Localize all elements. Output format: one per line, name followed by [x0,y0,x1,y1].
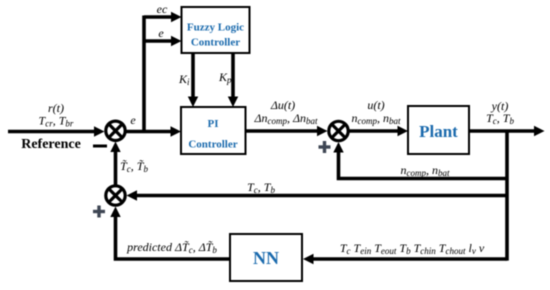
svg-text:Plant: Plant [419,122,458,141]
arrowhead Kp [228,97,238,108]
svg-text:Fuzzy Logic: Fuzzy Logic [187,22,244,34]
wire NN input from tap [312,257,508,261]
NN box [230,234,302,281]
wire S3 to S1 [114,150,118,185]
svg-text:PI: PI [208,118,219,130]
plant box [408,106,469,154]
wire Kp [231,53,235,99]
summing junction S3 [106,186,125,205]
arrowhead into summing junction S1 [94,126,105,136]
svg-text:NN: NN [253,248,279,268]
wire S1 to PI controller [126,130,173,134]
svg-text:u(t): u(t) [367,98,384,112]
arrowhead into S3 right [127,190,138,200]
wire vertical tap on output [505,130,509,261]
svg-text:predicted ΔT̃c, ΔT̃b: predicted ΔT̃c, ΔT̃b [126,240,217,255]
wire NN output to S3 [116,214,231,259]
svg-text:Δu(t): Δu(t) [270,98,295,112]
arrowhead into S3 bottom [110,207,120,218]
arrowhead into S2 [317,126,328,136]
svg-text:e: e [130,113,136,127]
fuzzy logic controller box [182,7,250,53]
PI controller box [181,107,246,154]
arrowhead into S1 bottom [110,142,120,153]
minus sign at S1 [93,145,107,148]
svg-text:ec: ec [157,2,168,16]
svg-text:Controller: Controller [188,139,237,151]
wire branch e up [142,16,146,134]
arrowhead Ki [188,97,198,108]
summing junction S2 [329,121,348,140]
summing junction S1 [106,121,125,140]
wire S2 to plant [349,129,400,133]
plus sign at S3 [93,206,105,218]
svg-text:Controller: Controller [191,37,240,49]
wire plant output [469,129,536,133]
svg-text:Reference: Reference [21,137,81,152]
wire feedback Tc,Tb to S3 [135,194,508,198]
svg-text:e: e [158,26,164,40]
arrowhead into PI controller [171,126,182,136]
wire ec into fuzzy controller [144,15,173,19]
arrowhead ec [171,12,182,22]
arrowhead output [534,126,545,136]
wire PI to S2 [246,129,320,133]
wire reference input [8,130,96,134]
arrowhead e [171,36,182,46]
wire Ki [191,53,195,99]
wire feedback n to S2 [339,150,508,179]
arrowhead into plant [398,126,409,136]
arrowhead into S2 bottom [333,142,343,153]
wire e into fuzzy controller [144,39,173,43]
plus sign at S2 [319,141,331,153]
arrowhead into NN right [303,254,314,264]
